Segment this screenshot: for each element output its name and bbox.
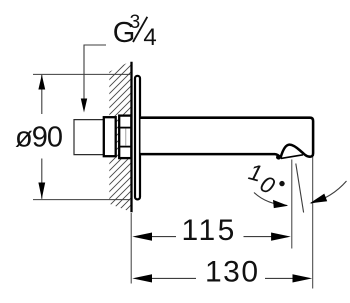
130 arrow right: [293, 274, 313, 282]
svg-text:130: 130: [205, 256, 260, 289]
angle arc right: [311, 181, 347, 203]
spout tube body fill: [141, 116, 314, 158]
fraction slash: [133, 17, 147, 42]
115 dimension line left shaft: [150, 236, 176, 238]
ø90 dimension line lower segment: [41, 159, 43, 199]
ø90 extension line top: [33, 73, 131, 75]
130 arrow left: [132, 274, 152, 282]
ø90 extension line bottom: [33, 199, 131, 201]
nut facet line lower: [118, 146, 132, 148]
svg-text:4: 4: [143, 24, 156, 51]
angle arc left: [254, 193, 287, 206]
left extension line (wall face, below wall): [130, 213, 132, 284]
threaded shank G3/4: [104, 117, 116, 156]
supply pipe (thin, behind wall): [74, 120, 104, 155]
extension line at spout tip (130): [312, 157, 314, 289]
wall face line: [130, 62, 132, 212]
angle arc right arrow: [310, 194, 328, 204]
hex nut: [119, 116, 131, 159]
svg-text:3: 3: [130, 12, 141, 33]
130 dimension line left shaft: [150, 277, 196, 279]
ø90 arrow up: [38, 75, 45, 90]
spout tube bottom line: [141, 154, 280, 157]
115 arrow right: [271, 233, 291, 241]
ø90 arrow down: [38, 183, 45, 199]
svg-text:ø90: ø90: [15, 121, 62, 153]
nut faint edge line: [125, 129, 127, 146]
degree dot: [279, 181, 284, 186]
outlet junction blob: [276, 155, 281, 160]
spout tube top + right edge + outlet hump: [141, 118, 314, 158]
G3/4 label: [113, 12, 157, 51]
wall hatching: [102, 30, 138, 241]
130 dimension line right shaft: [265, 277, 294, 279]
nut facet line upper: [118, 127, 132, 129]
ø90 dimension line upper segment: [41, 75, 43, 114]
115 dimension line right shaft: [244, 236, 273, 238]
extension line at spout outlet (115): [291, 160, 293, 249]
G3/4 leader arrow (down): [81, 99, 87, 113]
flange (escutcheon, ø90): [135, 76, 140, 200]
svg-text:115: 115: [182, 214, 237, 247]
outlet lip line: [281, 155, 303, 159]
115 arrow left: [132, 233, 152, 241]
G3/4 leader line: [84, 45, 106, 100]
angle arc left arrow: [273, 200, 288, 208]
angled line 10 deg: [296, 164, 304, 213]
